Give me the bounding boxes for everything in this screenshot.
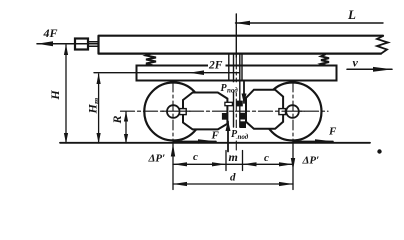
suspension link left: [233, 54, 235, 127]
friction force F right arrow: [293, 140, 333, 142]
svg-text:F: F: [211, 130, 220, 142]
coupler box: [75, 39, 88, 50]
right spring: [321, 55, 329, 66]
dimension line c-m-c: [173, 163, 293, 165]
hub center line left: [162, 110, 190, 112]
svg-text:4F: 4F: [43, 26, 58, 40]
right wheel: [264, 83, 322, 141]
dimension line d: [173, 183, 293, 185]
svg-text:c: c: [264, 152, 269, 164]
H_t reference line and 2F force line: [94, 72, 239, 74]
bolster bar: [137, 66, 337, 81]
left axle hub: [167, 105, 180, 118]
left spring: [146, 54, 156, 66]
coupler draft links: [88, 42, 99, 46]
friction force F left arrow: [174, 140, 216, 142]
wheel axis center line: [121, 110, 329, 112]
label 2F: [208, 60, 226, 72]
label H_t: [86, 98, 102, 115]
svg-text:F: F: [328, 126, 337, 138]
suspension bolt outer right: [241, 54, 243, 81]
right axle hub: [286, 105, 299, 118]
label P_pod lower: [231, 128, 250, 141]
svg-text:R: R: [110, 115, 124, 124]
ink speck: [377, 149, 381, 153]
svg-text:d: d: [230, 172, 236, 184]
left wheel vertical center line: [172, 82, 174, 142]
dimension L line: [236, 22, 384, 24]
svg-text:2F: 2F: [208, 60, 223, 72]
left wheel load extension line: [172, 144, 174, 190]
P_pod up arrow: [227, 122, 229, 152]
right hub stub: [279, 109, 286, 115]
svg-text:под: под: [227, 87, 238, 95]
delta P up arrow left: [171, 144, 175, 157]
svg-text:H: H: [48, 90, 62, 101]
svg-text:т: т: [92, 98, 101, 104]
dimension H: [65, 45, 67, 143]
car body bar: [99, 36, 384, 54]
left hub stub: [180, 109, 187, 115]
hub center line right: [282, 110, 304, 112]
label P_pod upper: [220, 82, 239, 94]
2F arrowhead: [189, 70, 204, 75]
svg-text:под: под: [238, 133, 249, 141]
svg-text:H: H: [86, 104, 100, 115]
force arrow 4F: [37, 43, 99, 45]
m extension line right: [242, 151, 244, 171]
svg-text:c: c: [193, 151, 198, 163]
left gearbox middle bracket (filled): [222, 113, 228, 120]
label delta P left: [148, 153, 166, 165]
svg-text:ΔP′: ΔP′: [302, 155, 320, 167]
bogie center line: [235, 14, 237, 57]
left gearbox upper bracket: [225, 102, 233, 105]
svg-text:ΔP′: ΔP′: [148, 153, 166, 165]
left wheel: [144, 83, 202, 141]
right gearbox upper bracket (filled): [236, 101, 243, 107]
right gearbox middle bracket (filled): [240, 113, 246, 120]
body bar break zigzag: [377, 36, 388, 54]
right gearbox housing: [246, 90, 283, 129]
m extension line left: [225, 151, 227, 171]
suspension bolt outer left: [228, 54, 230, 81]
dimension R: [125, 112, 127, 143]
right wheel vertical center line: [292, 82, 294, 142]
delta P down arrow right: [291, 158, 295, 170]
rail line: [60, 142, 370, 144]
label delta P right: [302, 155, 320, 167]
suspension link right: [239, 54, 241, 127]
left gearbox housing: [183, 93, 227, 130]
velocity arrow v: [347, 68, 392, 70]
svg-text:L: L: [347, 7, 356, 22]
dimension H_t: [98, 74, 100, 143]
right wheel load extension line: [292, 143, 294, 190]
svg-text:m: m: [229, 150, 238, 164]
P_pod down arrow: [243, 81, 245, 103]
svg-text:v: v: [353, 56, 359, 70]
right gearbox lower bracket (filled): [240, 121, 246, 128]
dimension L left arrowhead: [236, 21, 251, 25]
